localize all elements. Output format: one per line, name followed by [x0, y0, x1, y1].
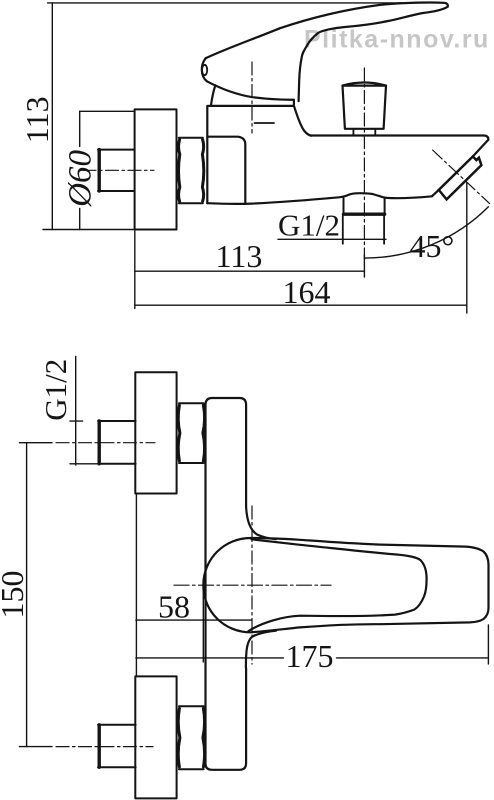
svg-text:150: 150 — [0, 571, 30, 619]
dim O60 line — [80, 111, 135, 229]
handle axis center line (front view) — [251, 506, 253, 664]
handle skirt — [207, 81, 294, 105]
lower hex nut (front view) — [178, 706, 204, 769]
handle lever (side view) top edge — [206, 2, 448, 58]
lower nipple center line — [56, 746, 153, 748]
body column (front view) — [206, 398, 247, 770]
dim 113 bottom extension line — [43, 229, 177, 231]
svg-text:175: 175 — [286, 638, 334, 674]
body inner line — [207, 137, 245, 204]
svg-text:164: 164 — [283, 274, 331, 310]
svg-text:G1/2: G1/2 — [38, 359, 73, 421]
dim 113 horizontal — [135, 231, 365, 309]
body left edge — [206, 106, 208, 203]
body to spout transition — [294, 106, 311, 136]
handle horizontal center line (front view) — [174, 584, 331, 586]
dim 58 — [136, 586, 252, 663]
upper wall nipple (front view) — [98, 421, 136, 464]
dim 113 top extension line — [48, 2, 447, 4]
diverter knob dome — [343, 83, 387, 86]
dim 164 horizontal — [135, 183, 467, 313]
body top edge — [209, 105, 294, 107]
handle skirt front edge — [211, 85, 216, 106]
column-to-handle flare top — [246, 505, 276, 539]
G1/2 label bottom view — [38, 359, 73, 421]
svg-text:Ø60: Ø60 — [63, 149, 99, 207]
svg-text:G1/2: G1/2 — [278, 208, 340, 243]
collar line — [255, 122, 275, 124]
dim 113 vertical label — [19, 96, 55, 143]
watermark Plitka-nnov.ru — [304, 26, 490, 54]
nipple center line — [83, 169, 154, 171]
handle inner blade line (front view) — [249, 539, 427, 631]
dim 45deg arc — [364, 207, 488, 258]
dim 175 — [136, 494, 489, 677]
svg-text:113: 113 — [216, 238, 263, 274]
svg-text:113: 113 — [19, 96, 55, 143]
spout cut face — [432, 140, 488, 196]
dim O60 label — [63, 149, 99, 207]
lower wall nipple (front view) — [98, 725, 136, 768]
handle nub tip — [202, 58, 207, 81]
G1/2 leader line — [70, 356, 99, 465]
spout bottom edge — [207, 193, 432, 204]
diverter knob body — [343, 86, 387, 129]
upper nipple center line — [56, 442, 155, 444]
knob / outlet axis center line — [363, 68, 365, 258]
upper hex nut (front view) — [178, 403, 204, 463]
aerator on 45deg face — [439, 157, 482, 200]
dim 113 vertical line — [51, 3, 53, 230]
shower outlet G1/2 — [343, 198, 385, 244]
G1/2 label and leader — [278, 208, 340, 243]
column-to-handle flare bottom — [246, 631, 276, 668]
diverter knob stem — [353, 129, 375, 136]
upper wall flange (front view) — [135, 372, 176, 493]
spout top edge — [311, 136, 488, 140]
handle outer outline (front view) — [203, 538, 488, 632]
hex nut (side view) — [179, 138, 204, 204]
svg-text:58: 58 — [158, 589, 190, 625]
svg-text:45°: 45° — [410, 228, 455, 264]
wall flange (side view) — [135, 109, 177, 229]
dim 150 vertical — [20, 443, 53, 747]
wall nipple (side view) — [98, 150, 135, 191]
45deg label — [410, 228, 455, 264]
aerator axis 45deg center line — [433, 150, 490, 204]
handle nub ellipse — [202, 65, 207, 75]
cartridge axis center line — [251, 62, 253, 133]
handle lever underside — [299, 7, 448, 101]
lower wall flange (front view) — [135, 676, 176, 798]
